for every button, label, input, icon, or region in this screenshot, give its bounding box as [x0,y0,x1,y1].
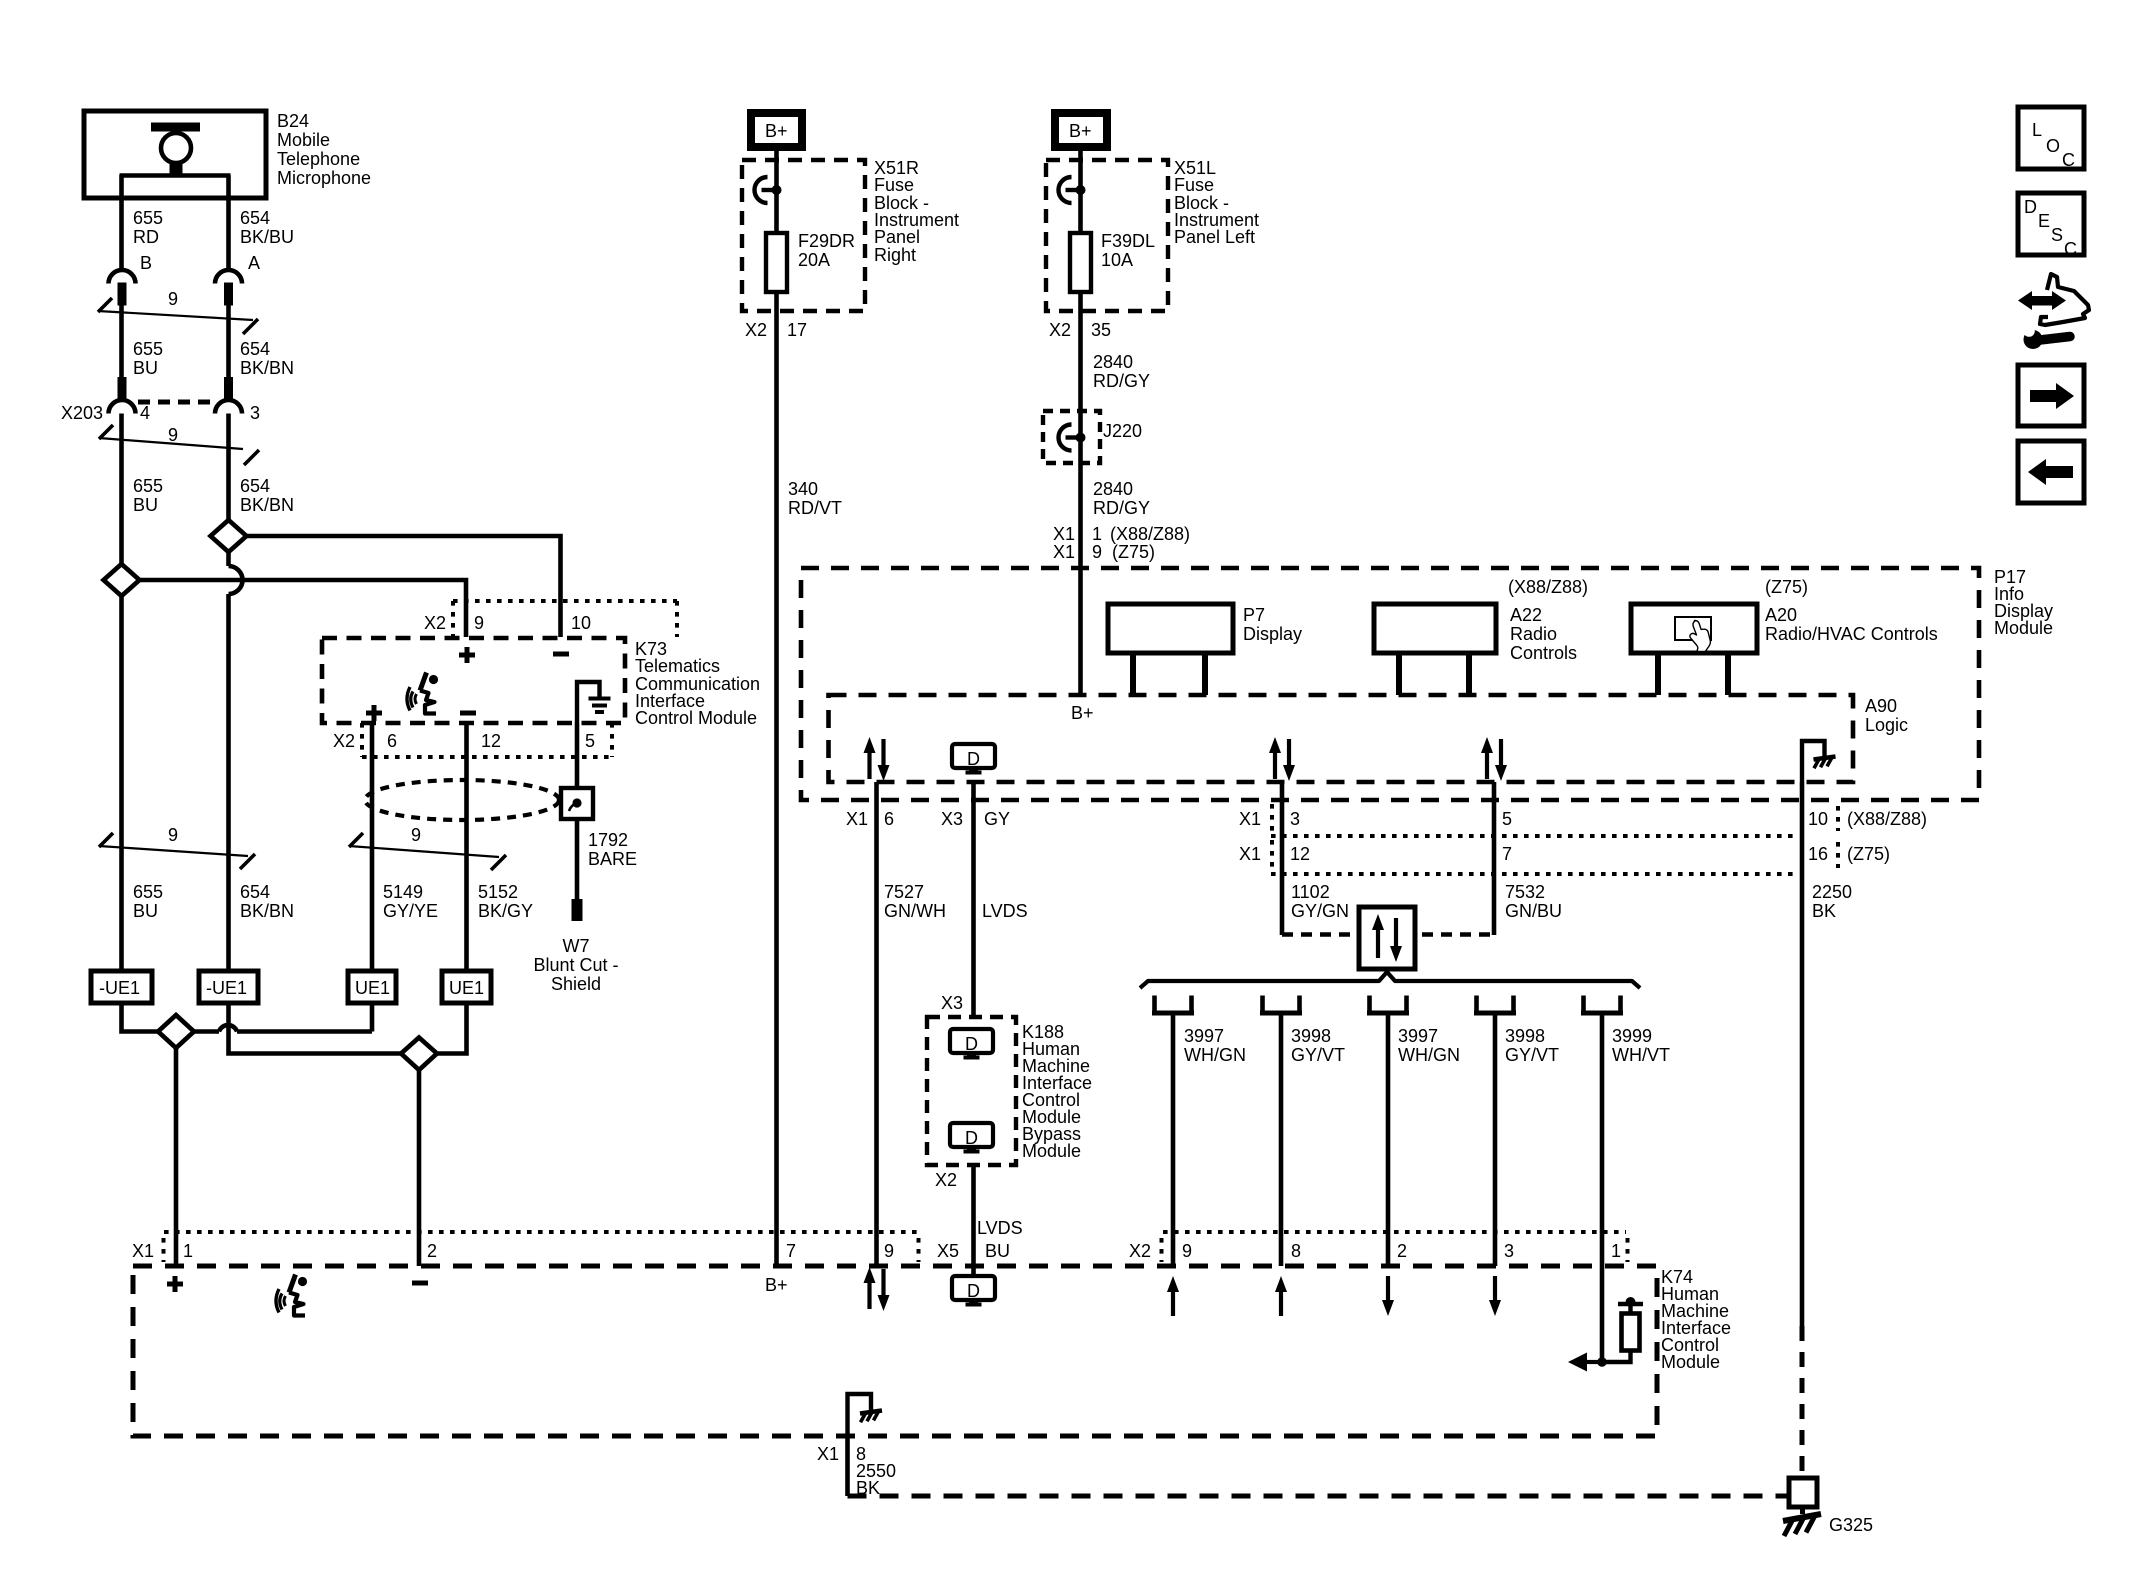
svg-text:BK/BU: BK/BU [240,227,294,247]
svg-text:E: E [2038,211,2050,231]
svg-text:7532: 7532 [1505,882,1545,902]
svg-text:X2: X2 [333,731,355,751]
splice J220 dashed box [1043,411,1100,463]
svg-text:(X88/Z88): (X88/Z88) [1110,524,1190,544]
junction dot [1597,1357,1607,1367]
svg-text:C: C [2064,239,2077,259]
svg-text:(Z75): (Z75) [1765,577,1808,597]
svg-text:RD: RD [133,227,159,247]
svg-text:(X88/Z88): (X88/Z88) [1847,809,1927,829]
svg-text:Telematics: Telematics [635,656,720,676]
svg-text:X2: X2 [1129,1241,1151,1261]
wire 3997 WH/GN (pin 2) [1386,1015,1391,1266]
svg-text:Logic: Logic [1865,715,1908,735]
component B24 Mobile Telephone Microphone box [84,111,266,198]
fuse F39DL 10A [1070,233,1091,292]
svg-text:9: 9 [168,425,178,445]
svg-text:B+: B+ [1069,121,1092,141]
svg-text:Microphone: Microphone [277,168,371,188]
fuse block X51L dashed box [1046,160,1168,311]
fuse F29DR 20A [766,233,787,292]
svg-text:3: 3 [1290,809,1300,829]
clip terminal wire 3999 (pin 1) [1581,996,1623,1014]
svg-text:3999: 3999 [1612,1026,1652,1046]
shield connection square [561,788,593,819]
svg-text:654: 654 [240,882,270,902]
svg-text:654: 654 [240,476,270,496]
up arrow (K74 X2 pin 8) [1279,1290,1283,1316]
svg-text:Shield: Shield [551,974,601,994]
sub-block A22 Radio Controls [1374,604,1496,653]
twisted pair marker 9 (lower 655/654) [99,833,255,869]
svg-text:655: 655 [133,208,163,228]
module K73 dashed box [322,638,625,723]
svg-text:Mobile: Mobile [277,130,330,150]
svg-text:3: 3 [1504,1241,1514,1261]
svg-text:5: 5 [1502,809,1512,829]
terminal hook in X51R [755,177,782,203]
svg-text:Module: Module [1661,1352,1720,1372]
svg-text:3997: 3997 [1398,1026,1438,1046]
svg-text:10A: 10A [1101,250,1133,270]
connector row X1 12 7 16 (Z75) [1271,840,1838,874]
svg-text:RD/GY: RD/GY [1093,371,1150,391]
splice diamond (microphone +) [158,1015,194,1048]
svg-text:Fuse: Fuse [1174,175,1214,195]
svg-text:X203: X203 [61,403,103,423]
svg-text:-UE1: -UE1 [99,978,140,998]
connector strip X2 of K74 (pins 9,8,2,3,1) [1162,1232,1628,1262]
bidirectional arrows on A90 pin X1 6 [864,737,890,781]
wire 2550 BK from X1 pin 8 [845,1437,850,1496]
plus terminal (pin 6) [366,705,382,721]
svg-text:B+: B+ [765,1275,788,1295]
fuse block X51R dashed box [742,160,865,311]
wire B+ into fuse [1078,150,1083,234]
terminating resistor inside K74 [1622,1314,1640,1351]
wire from UE1 to splice with hop [370,1002,375,1032]
wire 3999 WH/VT (pin 1) [1600,1015,1605,1362]
svg-text:GN/BU: GN/BU [1505,901,1562,921]
wrench icon [2024,330,2043,349]
svg-text:Panel Left: Panel Left [1174,227,1255,247]
svg-text:Radio: Radio [1510,624,1557,644]
svg-text:A90: A90 [1865,696,1897,716]
svg-text:BU: BU [133,901,158,921]
svg-text:7: 7 [786,1241,796,1261]
connector strip X1 of K74 (pins 1,2,7,9) [164,1232,920,1262]
net box UE1 (wire 5149) [348,971,396,1003]
connector terminal A [215,270,242,306]
svg-text:L: L [2032,120,2042,140]
svg-text:BK/BN: BK/BN [240,901,294,921]
bidirectional arrows (K74 pin 9) [864,1267,890,1311]
svg-text:X3: X3 [941,809,963,829]
twisted pair marker 9 (below X203) [99,425,259,465]
wire LVDS BU from K188 to K74 [971,1165,976,1276]
wire 2250 BK [1800,782,1805,1326]
back arrow box [2018,441,2084,503]
wire from splice down to K74 X1 pin 1 [174,1048,179,1266]
svg-text:Fuse: Fuse [874,175,914,195]
splice diamond on wire 654 [211,520,247,552]
svg-text:Control Module: Control Module [635,708,757,728]
svg-text:WH/GN: WH/GN [1398,1045,1460,1065]
svg-text:BK: BK [1812,901,1836,921]
svg-text:12: 12 [481,731,501,751]
svg-text:Controls: Controls [1510,643,1577,663]
sub-block A20 Radio/HVAC Controls [1631,604,1757,653]
internal ground of K73 (pin 5) [577,682,600,723]
svg-text:W7: W7 [563,936,590,956]
minus terminal (pin 10) [553,652,569,657]
wire 3998 GY/VT (pin 3) [1493,1015,1498,1266]
internal ground of A90 (pin 10/16) [1802,741,1825,782]
svg-text:GY/YE: GY/YE [383,901,438,921]
svg-text:654: 654 [240,208,270,228]
svg-text:9: 9 [168,289,178,309]
display D icon (K188 input) [950,1029,993,1058]
svg-text:9: 9 [474,613,484,633]
svg-text:UE1: UE1 [449,978,484,998]
minus terminal (pin 12) [460,711,476,716]
svg-text:GY: GY [984,809,1010,829]
speaker/microphone icon inside K73 [407,673,438,714]
wire 1102 GY/GN [1280,782,1285,935]
wire 7532 GN/BU [1492,782,1497,935]
svg-text:X1: X1 [1053,524,1075,544]
svg-text:340: 340 [788,479,818,499]
display D icon (K188 output) [950,1123,993,1152]
svg-text:X2: X2 [1049,320,1071,340]
net box UE1 (wire 5152) [442,971,491,1003]
svg-text:2840: 2840 [1093,352,1133,372]
net box -UE1 (wire 654) [199,971,258,1003]
wire 7527 GN/WH [874,782,879,1266]
touch screen icon inside A20 [1675,617,1711,640]
svg-text:9: 9 [168,825,178,845]
bidirectional arrows on A90 pin X1 3/12 [1269,737,1295,781]
svg-text:B: B [140,253,152,273]
svg-text:9: 9 [411,825,421,845]
svg-text:655: 655 [133,882,163,902]
shield ellipse around 5149/5152 [365,780,559,820]
minus terminal (K74 pin 2) [412,1281,428,1286]
B+ power symbol (left feed) [1055,113,1107,147]
svg-text:10: 10 [571,613,591,633]
svg-text:3998: 3998 [1505,1026,1545,1046]
svg-text:BK/BN: BK/BN [240,495,294,515]
svg-text:1: 1 [183,1241,193,1261]
svg-text:LVDS: LVDS [982,901,1028,921]
svg-text:2250: 2250 [1812,882,1852,902]
svg-text:X1: X1 [1239,809,1261,829]
svg-text:G325: G325 [1829,1515,1873,1535]
wire from -UE1 to splice [122,1003,159,1032]
svg-text:X2: X2 [935,1170,957,1190]
module K74 dashed box [133,1266,1657,1436]
LOC legend box [2018,107,2084,169]
svg-text:Module: Module [1022,1141,1081,1161]
down arrow (K74 X2 pin 3) [1493,1276,1497,1302]
connector X2 of K73 (pins 6,12,5) dotted box [362,723,612,757]
svg-text:8: 8 [1291,1241,1301,1261]
svg-text:2: 2 [427,1241,437,1261]
svg-text:WH/VT: WH/VT [1612,1045,1670,1065]
wire 655 continues below splice [119,596,124,971]
svg-text:WH/GN: WH/GN [1184,1045,1246,1065]
svg-text:7: 7 [1502,844,1512,864]
DESC legend box [2018,193,2084,255]
svg-text:-UE1: -UE1 [206,978,247,998]
wire from fuse to connector X2 17 [774,292,779,311]
svg-text:12: 12 [1290,844,1310,864]
connector X203 pin 4 [109,377,136,414]
connector X203 pin 3 [215,377,242,414]
svg-text:655: 655 [133,339,163,359]
B+ power symbol (right feed) [751,113,802,147]
svg-text:BU: BU [133,358,158,378]
svg-text:1792: 1792 [588,830,628,850]
connector terminal B [109,270,136,306]
svg-text:20A: 20A [798,250,830,270]
svg-text:6: 6 [387,731,397,751]
wire from splice to K73 pin 10 [247,536,561,637]
svg-text:1102: 1102 [1291,882,1330,902]
wire B+ into fuse [774,150,779,234]
wire LVDS GY to K188 [971,782,976,1017]
svg-text:2840: 2840 [1093,479,1133,499]
connector row X1 3 5 10 (X88/Z88) [1271,804,1838,836]
svg-text:GY/VT: GY/VT [1505,1045,1559,1065]
sub-block P7 Display [1108,604,1233,653]
svg-text:16: 16 [1808,844,1828,864]
wire 654 BK/BU from B24 pin A [226,175,231,270]
svg-text:BU: BU [133,495,158,515]
svg-text:4: 4 [140,403,150,423]
svg-text:O: O [2046,136,2060,156]
wire from splice to K73 pin 9 [140,580,467,637]
module P17 Info Display Module dashed box [801,568,1979,800]
svg-text:D: D [2024,197,2037,217]
svg-text:(X88/Z88): (X88/Z88) [1508,577,1588,597]
svg-text:10: 10 [1808,809,1828,829]
svg-text:5152: 5152 [478,882,518,902]
svg-text:C: C [2062,150,2075,170]
svg-text:P7: P7 [1243,605,1265,625]
svg-text:A20: A20 [1765,605,1797,625]
svg-text:5149: 5149 [383,882,423,902]
logic block A90 dashed box [829,695,1854,782]
connector X2 of K73 (pins 9,10) dotted box [453,601,677,637]
svg-text:LVDS: LVDS [977,1218,1023,1238]
svg-text:9: 9 [1092,542,1102,562]
svg-text:BK/BN: BK/BN [240,358,294,378]
svg-text:655: 655 [133,476,163,496]
svg-text:X1: X1 [1239,844,1261,864]
wire 3998 GY/VT (pin 8) [1279,1015,1284,1266]
svg-text:Telephone: Telephone [277,149,360,169]
svg-text:(Z75): (Z75) [1112,542,1155,562]
svg-text:Display: Display [1243,624,1302,644]
ground G325 [1789,1478,1817,1507]
clip terminal wire 3997 (pin 9) [1152,996,1194,1014]
wire from fuse to connector X2 35 [1078,292,1083,311]
svg-text:GY/VT: GY/VT [1291,1045,1345,1065]
svg-text:X5: X5 [937,1241,959,1261]
svg-text:9: 9 [884,1241,894,1261]
svg-text:A: A [248,253,260,273]
svg-text:A22: A22 [1510,605,1542,625]
svg-text:7527: 7527 [884,882,924,902]
svg-text:3: 3 [250,403,260,423]
svg-text:BARE: BARE [588,849,637,869]
clip terminal wire 3998 (pin 3) [1474,996,1516,1014]
terminal hook in X51L [1059,177,1086,203]
svg-text:RD/VT: RD/VT [788,498,842,518]
svg-text:9: 9 [1182,1241,1192,1261]
plus terminal (pin 9) [459,647,475,663]
wire from -UE1 (654) to splice [229,1003,402,1054]
dashed leads into LVDS pair symbol [1282,932,1352,936]
svg-text:1: 1 [1611,1241,1621,1261]
wire 655 RD from B24 pin B [119,175,124,270]
svg-text:Blunt Cut -: Blunt Cut - [533,955,618,975]
brace fanning out five wires [1140,972,1640,988]
dashed link between X203 halves [138,400,213,405]
display output D icon on A90 pin X3 [952,744,995,773]
internal ground of K74 (X1 pin 8) [848,1394,872,1437]
svg-text:3998: 3998 [1291,1026,1331,1046]
clip terminal wire 3997 (pin 2) [1367,996,1409,1014]
wire 654 continues with hop over horizontal wire [226,552,231,566]
svg-text:1: 1 [1092,524,1102,544]
wire from splice down to K74 X1 pin 2 [417,1070,422,1266]
display D icon inside K74 (X5) [952,1276,995,1305]
svg-text:X1: X1 [846,809,868,829]
svg-text:3997: 3997 [1184,1026,1224,1046]
net box -UE1 (wire 655) [91,971,152,1003]
svg-text:UE1: UE1 [355,978,390,998]
svg-text:35: 35 [1091,320,1111,340]
wire 2840 RD/GY down into P17 [1078,311,1083,695]
svg-text:Panel: Panel [874,227,920,247]
svg-text:J220: J220 [1103,421,1142,441]
splice diamond on wire 655 [104,564,140,596]
svg-text:X1: X1 [817,1444,839,1464]
svg-text:RD/GY: RD/GY [1093,498,1150,518]
wire 340 RD/VT down to K74 pin 7 [774,311,779,1266]
forward arrow box [2018,365,2084,426]
svg-text:Right: Right [874,245,916,265]
plus terminal (K74 pin 1) [167,1276,183,1292]
svg-text:X1: X1 [132,1241,154,1261]
svg-text:B+: B+ [765,121,788,141]
svg-text:X2: X2 [424,613,446,633]
wire 655 BU to splice [119,414,124,566]
up arrow (K74 X2 pin 9) [1171,1290,1175,1316]
svg-text:X2: X2 [745,320,767,340]
LVDS twisted pair box with arrows [1359,907,1415,969]
svg-text:BU: BU [985,1241,1010,1261]
svg-text:B+: B+ [1071,703,1094,723]
svg-text:654: 654 [240,339,270,359]
terminal hook in J220 [1059,425,1086,451]
wire 5152 BK/GY from pin 12 [464,723,469,971]
speaker/microphone icon inside K74 [276,1275,307,1316]
svg-text:5: 5 [585,731,595,751]
svg-text:Module: Module [1994,618,2053,638]
left arrow at end of wire 3999 [1586,1360,1602,1364]
svg-text:BK/GY: BK/GY [478,901,533,921]
svg-text:GN/WH: GN/WH [884,901,946,921]
svg-text:(Z75): (Z75) [1847,844,1890,864]
wire 5149 GY/YE from pin 6 [370,723,375,971]
svg-text:17: 17 [787,320,807,340]
twisted pair marker 9 (5149/5152) [349,833,506,870]
svg-text:X3: X3 [941,993,963,1013]
shield drain wire from pin 5 [575,723,580,899]
svg-text:F29DR: F29DR [798,231,855,251]
dashed wire 2550 BK to G325 [848,1494,1790,1499]
svg-text:6: 6 [884,809,894,829]
wire 655 BU to X203 [119,305,124,378]
wire 654 BK/BN to splice [226,414,231,522]
svg-text:F39DL: F39DL [1101,231,1155,251]
dashed wire 2250 BK to G325 [1800,1326,1805,1477]
wire 3997 WH/GN (pin 9) [1171,1015,1176,1266]
svg-text:Radio/HVAC Controls: Radio/HVAC Controls [1765,624,1938,644]
svg-text:B24: B24 [277,111,309,131]
microphone icon inside B24 [120,127,231,176]
svg-text:X1: X1 [1053,542,1075,562]
bidirectional arrows on A90 pin X1 5/7 [1481,737,1507,781]
connector view icon (double arrow, outline, wrench) [2018,291,2032,310]
down arrow (K74 X2 pin 2) [1386,1276,1390,1302]
wire from UE1 (5152) to splice [437,1002,467,1054]
svg-text:2: 2 [1397,1241,1407,1261]
wire 654 BK/BN to X203 [226,305,231,378]
twisted pair marker 9 (top) [98,298,258,334]
blunt cut end of shield wire W7 [572,899,583,921]
clip terminal wire 3998 (pin 8) [1260,996,1302,1014]
svg-text:S: S [2051,225,2063,245]
svg-text:GY/GN: GY/GN [1291,901,1349,921]
splice diamond (microphone -) [401,1038,437,1071]
